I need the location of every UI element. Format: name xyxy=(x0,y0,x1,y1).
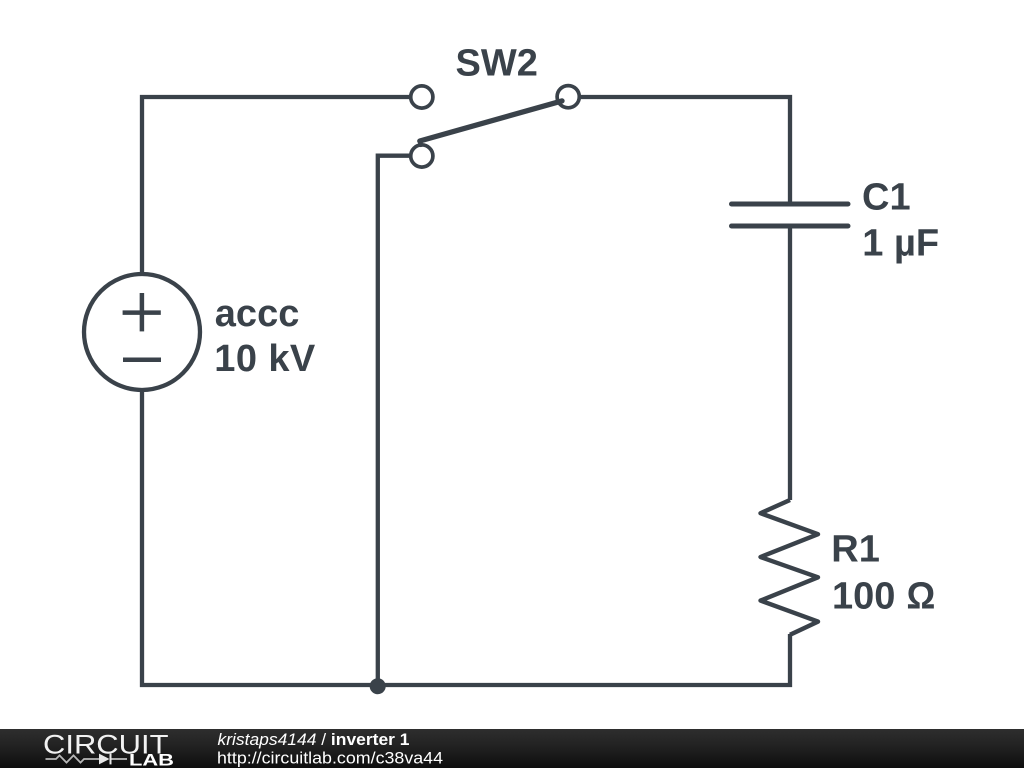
capacitor C1 bottom plate xyxy=(732,224,849,229)
footer url xyxy=(217,748,443,767)
value 100 Ohm xyxy=(832,575,935,617)
switch SW2 left terminal circle xyxy=(411,86,433,108)
footer bar xyxy=(0,729,1024,768)
wire: capacitor bottom to resistor top xyxy=(788,226,792,500)
label accc xyxy=(215,293,300,335)
voltage source plus sign xyxy=(123,293,161,331)
CircuitLab logo wordmark CIRCUIT xyxy=(43,729,169,759)
switch SW2 right terminal circle xyxy=(557,86,579,108)
switch SW2 pole terminal circle xyxy=(411,145,433,167)
resistor R1 zigzag body xyxy=(761,500,819,635)
svg-text:LAB: LAB xyxy=(129,752,174,768)
value 10 kV xyxy=(214,338,316,380)
capacitor C1 top plate xyxy=(732,202,849,207)
wire: switch right terminal to capacitor top xyxy=(581,97,790,203)
wire: switch pole down to bottom rail xyxy=(378,156,409,685)
switch SW2 lever arm xyxy=(420,101,562,145)
label SW2 xyxy=(456,43,538,85)
voltage source minus sign xyxy=(123,357,161,362)
svg-text:http://circuitlab.com/c38va44: http://circuitlab.com/c38va44 xyxy=(217,748,443,767)
footer credit line: user / title xyxy=(218,730,410,749)
svg-text:kristaps4144 / inverter 1: kristaps4144 / inverter 1 xyxy=(218,730,410,749)
CircuitLab logo mini diode xyxy=(99,754,127,765)
voltage source accc: circle body xyxy=(84,274,200,390)
value 1 uF xyxy=(862,222,939,264)
CircuitLab logo wordmark LAB xyxy=(129,752,174,768)
wire: source top to switch left terminal xyxy=(142,97,409,274)
CircuitLab logo mini resistor squiggle xyxy=(46,755,100,762)
wire: resistor bottom, bottom rail, up to source bottom xyxy=(142,390,790,685)
label C1 xyxy=(862,177,911,219)
junction node on bottom rail xyxy=(370,678,386,694)
label R1 xyxy=(831,528,880,570)
